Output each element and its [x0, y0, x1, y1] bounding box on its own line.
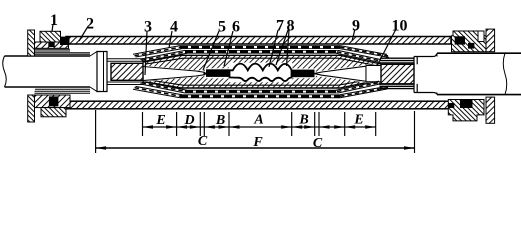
- leader line 7: [269, 30, 278, 67]
- left binding collar: [97, 52, 107, 92]
- left gland small seal top (black): [48, 42, 54, 47]
- leader line 2: [79, 28, 87, 41]
- leader line 1: [52, 24, 53, 32]
- protective pipe bottom wall: [66, 101, 451, 109]
- leader line 9: [352, 29, 355, 41]
- svg-text:B: B: [215, 113, 225, 128]
- svg-text:7: 7: [276, 18, 284, 35]
- right pencil end face: [365, 66, 367, 82]
- svg-text:C: C: [198, 134, 208, 149]
- svg-text:1: 1: [50, 12, 58, 29]
- left pencil tip cap: [204, 72, 206, 76]
- left gland clamp lines top: [35, 49, 91, 54]
- leader line 4: [169, 31, 172, 48]
- step to right cable jacket: [436, 53, 438, 94]
- shield tape band top (parts 5/6 callout): [133, 46, 389, 63]
- svg-text:D: D: [183, 113, 194, 128]
- main dimension line: [143, 126, 376, 128]
- wrapped insulation bottom boundary outer line: [143, 80, 381, 89]
- svg-text:E: E: [353, 113, 363, 128]
- leader line 6: [224, 31, 233, 66]
- svg-text:F: F: [252, 135, 263, 150]
- right core white layer: [366, 65, 381, 83]
- right gland notch top: [478, 31, 484, 42]
- right gland small seal top (black): [468, 43, 474, 49]
- dimension ticks: [143, 112, 376, 136]
- right gland small seal bottom (black): [448, 103, 454, 108]
- wrapped insulation top boundary outer line: [143, 55, 381, 64]
- left cable: [3, 56, 90, 87]
- dimension arrowheads: [96, 125, 415, 149]
- svg-text:9: 9: [352, 18, 360, 35]
- left cable jacket flare cone: [90, 52, 97, 92]
- shield tape band bottom: [133, 81, 389, 98]
- svg-text:B: B: [298, 113, 308, 128]
- left insulation pencil cone (part 5 callout): [143, 67, 204, 81]
- right cable: [437, 53, 521, 94]
- wrapped insulation top boundary inner line: [146, 58, 379, 66]
- left gland flange top (part 1 callout): [28, 30, 35, 56]
- left core insulation block (hatched, part 3/4 area): [111, 63, 143, 80]
- right gland body top: [452, 31, 487, 52]
- left gland seal top (black): [60, 37, 70, 45]
- left collar end ring line: [103, 52, 105, 92]
- converged wrap lines over right block (bottom): [379, 84, 414, 88]
- right core insulation block (hatched, part 10 area): [381, 64, 414, 84]
- leader line 10: [377, 29, 396, 66]
- left core layer edge lines: [107, 59, 143, 85]
- right collar end faces: [414, 57, 417, 93]
- crimped connector ferrule (parts 7/8 callout): [230, 64, 292, 81]
- right bare conductor (black bar): [292, 70, 315, 78]
- left gland clamp lines bottom: [35, 89, 91, 93]
- right gland seal top (black): [455, 36, 465, 44]
- right gland flange bottom: [486, 97, 495, 123]
- leader lines 8 (forked): [276, 30, 289, 66]
- white clearance around core parts: [142, 63, 367, 83]
- right gland body bottom: [448, 100, 484, 121]
- svg-text:4: 4: [170, 19, 178, 36]
- right gland flange top: [486, 29, 495, 52]
- left gland flange bottom: [28, 95, 35, 122]
- left bare conductor (black bar): [206, 69, 230, 77]
- svg-text:10: 10: [392, 18, 408, 35]
- wrapped insulation bottom boundary inner line: [146, 78, 379, 85]
- protective pipe top wall (part 2/9 callout): [66, 37, 451, 45]
- F extension line right: [414, 111, 416, 153]
- converged wrap lines over right block (top): [379, 58, 414, 63]
- left gland nut top: [40, 31, 61, 42]
- right core layer edge lines: [366, 66, 381, 82]
- svg-text:C: C: [313, 136, 323, 151]
- svg-text:E: E: [155, 113, 165, 128]
- left gland seal bottom (black): [49, 96, 59, 106]
- svg-text:6: 6: [232, 19, 240, 36]
- leader line 5: [203, 31, 219, 70]
- F extension line left: [95, 110, 97, 153]
- right gland seal bottom (black): [460, 100, 473, 108]
- svg-text:A: A: [253, 113, 263, 128]
- left gland nut bottom: [41, 108, 66, 117]
- wrapped insulation filler (hatched lens): [144, 56, 381, 88]
- left core layer end face: [142, 61, 144, 82]
- F dimension line: [96, 147, 415, 149]
- left gland body top: [35, 42, 69, 48]
- svg-text:3: 3: [144, 19, 152, 36]
- svg-text:5: 5: [218, 19, 226, 36]
- right binding collar edges: [414, 54, 437, 94]
- left gland body bottom: [35, 95, 71, 108]
- svg-text:2: 2: [86, 16, 94, 33]
- svg-text:8: 8: [287, 18, 295, 35]
- left core inner layer lines: [107, 61, 143, 82]
- leader line 3: [145, 31, 147, 75]
- right insulation pencil cone: [314, 66, 366, 81]
